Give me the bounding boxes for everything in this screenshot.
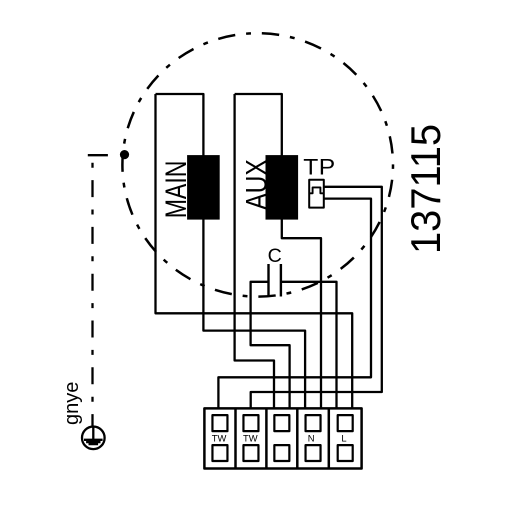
winding MAIN (black box) (187, 155, 220, 220)
terminal block dividers (236, 408, 329, 469)
svg-text:MAIN: MAIN (159, 161, 193, 219)
wire MAIN top + right to N terminal (156, 94, 306, 409)
capacitor C plates (269, 264, 281, 297)
thermal protector TP contact detail (309, 187, 324, 193)
wire earth dash-dot lead (88, 154, 108, 156)
wire AUX top + right to N terminal (235, 94, 321, 409)
svg-text:137115: 137115 (402, 124, 449, 254)
svg-text:TW: TW (212, 432, 227, 443)
svg-text:L: L (341, 432, 346, 443)
wire capacitor right lead to L terminal (281, 282, 337, 409)
wire AUX left to terminal 3 (235, 94, 274, 409)
wire TP top to TW terminal 2 (251, 187, 382, 409)
winding AUX (black box) (266, 155, 299, 220)
wire TP bottom to TW terminal 1 (218, 199, 371, 409)
ground protective-earth symbol (82, 427, 105, 450)
terminal block outline (204, 408, 361, 468)
motor boundary circle (dash-dot) (122, 33, 393, 296)
thermal protector TP body (309, 180, 324, 208)
wire MAIN left + bottom run to L terminal (156, 94, 353, 409)
node frame-earth dot (120, 150, 129, 159)
svg-text:AUX: AUX (239, 159, 273, 210)
svg-text:C: C (268, 245, 282, 267)
svg-text:N: N (308, 432, 315, 443)
terminal clamp squares (212, 415, 352, 461)
svg-text:TP: TP (303, 155, 336, 179)
wire capacitor left lead to terminal 3 (251, 282, 290, 409)
svg-text:gnye: gnye (61, 382, 83, 425)
svg-text:TW: TW (243, 432, 258, 443)
